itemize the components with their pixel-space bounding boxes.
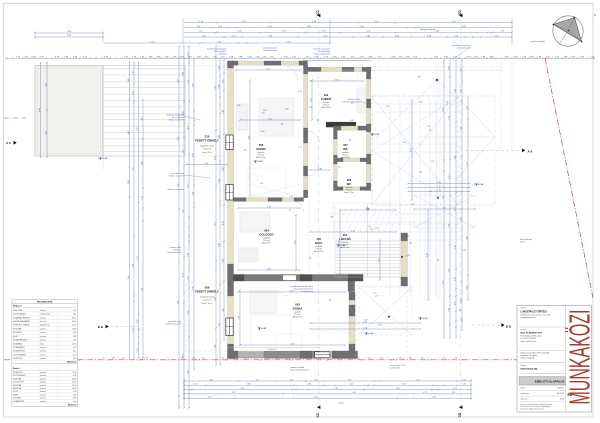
svg-text:1.15: 1.15 [298, 147, 302, 149]
svg-text:1.86: 1.86 [307, 384, 311, 386]
svg-text:HELYISÉGLISTA: HELYISÉGLISTA [37, 301, 53, 304]
svg-text:KÖZL: KÖZL [315, 240, 323, 245]
svg-text:KAVICSŰZA 584.: KAVICSŰZA 584. [521, 367, 539, 370]
svg-text:2.35: 2.35 [442, 281, 444, 285]
svg-text:1111 Budapest, Minta utca 1.: 1111 Budapest, Minta utca 1. [521, 335, 543, 338]
svg-text:Bm=2,70 m: Bm=2,70 m [256, 157, 266, 159]
svg-text:1.30: 1.30 [318, 168, 322, 170]
svg-text:4.30: 4.30 [460, 299, 462, 303]
svg-text:5.44: 5.44 [454, 156, 456, 160]
svg-text:DD: DD [458, 10, 462, 15]
svg-text:+2,85: +2,85 [261, 328, 267, 330]
svg-text:betéttel, m=1,10 m: betéttel, m=1,10 m [169, 175, 184, 178]
svg-text:1.85: 1.85 [310, 98, 312, 102]
svg-text:kerámia: kerámia [40, 353, 46, 356]
svg-text:2.15: 2.15 [373, 293, 377, 295]
svg-text:Emelet: Emelet [13, 367, 20, 370]
svg-text:vakolattal: vakolattal [218, 53, 226, 56]
svg-text:FEDETT ERKÉLY: FEDETT ERKÉLY [195, 138, 219, 143]
svg-text:2.15: 2.15 [132, 328, 134, 332]
svg-text:2.90: 2.90 [320, 358, 323, 360]
svg-text:B B: B B [506, 324, 512, 328]
svg-text:13 KÖZLEKEDŐ: 13 KÖZLEKEDŐ [13, 353, 27, 356]
svg-text:2.15: 2.15 [218, 323, 220, 327]
svg-text:A A: A A [6, 141, 12, 145]
svg-text:1.46: 1.46 [187, 371, 189, 375]
svg-text:4.30: 4.30 [192, 153, 194, 157]
svg-text:hőszig. üvegezéssel: hőszig. üvegezéssel [314, 54, 331, 56]
svg-text:1.46: 1.46 [334, 388, 338, 390]
svg-text:0.90: 0.90 [378, 325, 382, 327]
svg-text:2023.10.: 2023.10. [557, 388, 564, 390]
svg-text:05 SZOBA: 05 SZOBA [13, 384, 22, 387]
svg-text:1.65: 1.65 [128, 276, 130, 280]
svg-text:1.46: 1.46 [141, 288, 143, 292]
svg-text:5.44: 5.44 [466, 237, 468, 241]
svg-text:1.46: 1.46 [214, 297, 216, 301]
svg-text:Földszint: Földszint [13, 305, 22, 308]
svg-text:0.90: 0.90 [375, 228, 379, 230]
svg-text:1.10: 1.10 [429, 191, 433, 193]
svg-text:1.65: 1.65 [132, 71, 134, 75]
svg-text:1.15: 1.15 [308, 358, 311, 360]
svg-text:2.15: 2.15 [285, 358, 288, 360]
svg-text:96,40 m2: 96,40 m2 [68, 404, 77, 407]
svg-text:Bm=2,70 m: Bm=2,70 m [340, 247, 350, 249]
svg-text:2.90: 2.90 [45, 83, 47, 87]
svg-text:1.56: 1.56 [378, 258, 380, 262]
svg-text:tartószerkezeti terv: tartószerkezeti terv [169, 119, 184, 122]
svg-text:2030 Érd, Kavicsos utca 12., h: 2030 Érd, Kavicsos utca 12., hrsz.: 584 [521, 313, 550, 316]
svg-text:LÉPCSŐ: LÉPCSŐ [339, 236, 351, 241]
svg-text:CC: CC [316, 10, 320, 15]
svg-text:14,00 m2: 14,00 m2 [203, 148, 211, 150]
svg-text:+3,42: +3,42 [374, 133, 380, 136]
svg-text:lásd tartószerkezeti terv: lásd tartószerkezeti terv [290, 369, 309, 372]
svg-text:14,00 m2: 14,00 m2 [203, 299, 211, 301]
svg-text:tel: +36 30 123 4567: tel: +36 30 123 4567 [521, 337, 536, 340]
svg-text:2.35: 2.35 [298, 91, 302, 93]
svg-text:03 NAPPALI-ÉTKEZŐ: 03 NAPPALI-ÉTKEZŐ [13, 316, 31, 319]
svg-text:EMELETI ALAPRAJZ: EMELETI ALAPRAJZ [535, 380, 565, 384]
svg-text:5.44: 5.44 [462, 379, 466, 381]
svg-text:09 HÁZTARTÁSI H.: 09 HÁZTARTÁSI H. [13, 339, 29, 342]
svg-text:5.44: 5.44 [402, 384, 406, 386]
svg-text:1.65: 1.65 [187, 253, 189, 257]
svg-text:Bm=2,70 m: Bm=2,70 m [262, 243, 272, 245]
svg-text:2.40: 2.40 [420, 358, 423, 360]
svg-text:06 SZOBA: 06 SZOBA [13, 327, 22, 330]
svg-text:1.65: 1.65 [442, 358, 445, 360]
svg-text:email: iroda@terv.hu: email: iroda@terv.hu [521, 340, 537, 343]
svg-text:1.65: 1.65 [214, 86, 216, 90]
svg-text:DD: DD [458, 412, 462, 417]
svg-text:parketta: parketta [40, 327, 46, 330]
svg-text:2.90: 2.90 [144, 358, 147, 360]
svg-text:1.10: 1.10 [187, 80, 189, 84]
svg-text:+2,96: +2,96 [340, 245, 346, 247]
svg-text:Bm=2,70 m: Bm=2,70 m [321, 107, 331, 109]
svg-text:+2,25: +2,25 [102, 158, 108, 160]
svg-text:2.35: 2.35 [187, 277, 189, 281]
svg-text:4.75: 4.75 [187, 184, 189, 188]
svg-text:07 FÜRDŐ: 07 FÜRDŐ [13, 331, 22, 334]
svg-text:6.30: 6.30 [454, 358, 457, 360]
svg-text:1,85: 1,85 [73, 336, 76, 338]
svg-text:SZOBA: SZOBA [256, 147, 266, 151]
svg-text:1.95: 1.95 [192, 358, 195, 360]
svg-text:1.10: 1.10 [411, 204, 415, 206]
svg-text:3.80: 3.80 [396, 388, 400, 390]
svg-text:2.35: 2.35 [427, 126, 431, 128]
svg-text:2.90: 2.90 [177, 79, 179, 83]
svg-text:5.44: 5.44 [348, 379, 352, 381]
svg-text:1.65: 1.65 [132, 91, 134, 95]
svg-text:5.40: 5.40 [267, 206, 271, 208]
svg-text:1.48: 1.48 [218, 179, 220, 183]
svg-text:fagyálló burk.: fagyálló burk. [40, 324, 51, 327]
svg-text:2.56: 2.56 [294, 241, 296, 245]
svg-text:padlófűtés: padlófűtés [268, 348, 277, 351]
svg-text:kerámia: kerámia [40, 339, 46, 342]
svg-text:4.73: 4.73 [182, 273, 184, 277]
svg-text:02 KÖZLEKEDŐ: 02 KÖZLEKEDŐ [13, 374, 26, 377]
svg-text:2.40: 2.40 [276, 358, 279, 360]
svg-text:2.90: 2.90 [332, 358, 335, 360]
svg-text:lásd statikus terv: lásd statikus terv [264, 49, 277, 52]
svg-text:4.73: 4.73 [416, 379, 420, 381]
svg-text:2.90: 2.90 [192, 287, 194, 291]
svg-text:1.95: 1.95 [448, 269, 450, 273]
svg-text:5.44: 5.44 [182, 72, 184, 76]
svg-text:1.65: 1.65 [209, 379, 213, 381]
svg-text:4.73: 4.73 [454, 302, 456, 306]
svg-text:2,15: 2,15 [447, 101, 449, 105]
svg-text:M=1:100: M=1:100 [557, 393, 564, 395]
svg-text:14,35: 14,35 [72, 328, 76, 330]
svg-text:3.25: 3.25 [351, 230, 355, 232]
svg-text:1.95: 1.95 [137, 127, 139, 131]
svg-text:MUNKAKÖZI: MUNKAKÖZI [565, 310, 597, 405]
svg-text:2.40: 2.40 [222, 309, 224, 313]
svg-text:3,25: 3,25 [73, 347, 76, 349]
svg-text:1.48: 1.48 [460, 127, 462, 131]
svg-text:4.75: 4.75 [256, 379, 260, 381]
svg-text:1.65: 1.65 [187, 311, 189, 315]
svg-text:1.65: 1.65 [182, 210, 184, 214]
svg-text:6,20: 6,20 [73, 332, 76, 334]
svg-text:2.35: 2.35 [375, 296, 379, 298]
svg-text:1.95: 1.95 [314, 379, 318, 381]
svg-text:Bm=2,70 m: Bm=2,70 m [202, 152, 212, 154]
svg-text:1.48: 1.48 [177, 301, 179, 305]
svg-text:01 LÉPCSŐ: 01 LÉPCSŐ [13, 371, 23, 374]
svg-text:2.40: 2.40 [128, 131, 130, 135]
svg-text:1.48: 1.48 [132, 264, 134, 268]
svg-text:2.15: 2.15 [187, 53, 189, 57]
svg-text:kerámia: kerámia [40, 320, 46, 323]
svg-text:1.65: 1.65 [222, 80, 224, 84]
svg-text:beton: beton [40, 342, 44, 345]
svg-text:1.46: 1.46 [350, 384, 354, 386]
svg-text:1.46: 1.46 [460, 89, 462, 93]
svg-text:2.35: 2.35 [466, 162, 468, 166]
svg-text:2.90: 2.90 [137, 320, 139, 324]
svg-text:3.80: 3.80 [128, 180, 130, 184]
svg-text:méretarány:: méretarány: [521, 392, 531, 395]
svg-text:5.40: 5.40 [266, 68, 270, 70]
svg-text:É-04: É-04 [560, 398, 564, 401]
svg-text:12 SZÉLFOGÓ: 12 SZÉLFOGÓ [13, 350, 26, 353]
svg-text:4.20: 4.20 [410, 148, 412, 152]
svg-text:kerámia: kerámia [40, 309, 46, 312]
svg-text:4.30: 4.30 [314, 397, 318, 399]
svg-text:0.90: 0.90 [351, 103, 355, 105]
svg-text:1.95: 1.95 [132, 167, 134, 171]
svg-text:DOLGOZÓ: DOLGOZÓ [259, 232, 274, 237]
svg-text:4.30: 4.30 [208, 397, 212, 399]
svg-text:14.40: 14.40 [338, 403, 344, 405]
svg-text:1.10: 1.10 [261, 112, 265, 114]
svg-text:3.25: 3.25 [437, 190, 441, 192]
svg-text:2.90: 2.90 [454, 277, 456, 281]
svg-text:kerámia: kerámia [40, 335, 46, 338]
svg-text:munkatárs: Kiss Anna: munkatárs: Kiss Anna [521, 354, 537, 357]
svg-text:4.10: 4.10 [268, 118, 272, 120]
svg-text:3.80: 3.80 [222, 168, 224, 172]
svg-text:4,90: 4,90 [73, 340, 76, 342]
svg-text:helyszín:: helyszín: [521, 365, 528, 367]
svg-text:+2,30: +2,30 [368, 333, 374, 335]
svg-text:3.80: 3.80 [218, 243, 220, 247]
svg-text:4.73: 4.73 [453, 388, 457, 390]
svg-text:3.95: 3.95 [205, 163, 209, 165]
svg-text:MOL PLANNING KFT.: MOL PLANNING KFT. [521, 332, 543, 335]
svg-text:10 GARDRÓB: 10 GARDRÓB [13, 400, 25, 403]
svg-text:03 SZOBA: 03 SZOBA [13, 377, 22, 380]
svg-text:0.90: 0.90 [403, 142, 407, 144]
svg-text:2.15: 2.15 [452, 392, 456, 394]
svg-text:2.20: 2.20 [366, 208, 370, 210]
svg-text:3.80: 3.80 [409, 358, 412, 360]
svg-text:6.30: 6.30 [214, 156, 216, 160]
svg-text:2.35: 2.35 [370, 229, 374, 231]
svg-text:18,47: 18,47 [72, 321, 76, 323]
svg-text:146,32 m2: 146,32 m2 [67, 361, 77, 364]
svg-text:betéttel, m=1,10 m: betéttel, m=1,10 m [166, 323, 181, 326]
svg-text:4,25: 4,25 [73, 358, 76, 360]
svg-text:2.90: 2.90 [121, 358, 124, 360]
svg-text:2.15: 2.15 [443, 207, 447, 209]
svg-text:2.90: 2.90 [335, 79, 339, 81]
svg-text:5,32: 5,32 [73, 310, 76, 312]
svg-text:3.40: 3.40 [426, 253, 428, 257]
svg-text:4.73: 4.73 [423, 392, 427, 394]
svg-text:1.15: 1.15 [141, 196, 143, 200]
svg-text:lásd statikus terv: lásd statikus terv [168, 251, 181, 254]
svg-text:2.90: 2.90 [432, 397, 436, 399]
svg-text:5.44: 5.44 [218, 85, 220, 89]
svg-text:A A: A A [528, 150, 534, 154]
svg-text:04 DOLGOZÓ: 04 DOLGOZÓ [13, 381, 24, 384]
svg-text:Bm=2,70 m: Bm=2,70 m [293, 317, 303, 319]
svg-text:4.30: 4.30 [222, 221, 224, 225]
svg-text:Bm=2,70 m: Bm=2,70 m [341, 157, 351, 159]
svg-text:1.15: 1.15 [137, 349, 139, 353]
svg-text:1.10: 1.10 [437, 186, 441, 188]
svg-text:5.44: 5.44 [290, 379, 294, 381]
svg-text:FÜRDŐ: FÜRDŐ [321, 96, 332, 101]
svg-text:1.48: 1.48 [330, 217, 334, 219]
svg-text:1.15: 1.15 [265, 358, 268, 360]
svg-text:4.95: 4.95 [248, 136, 250, 140]
svg-text:10 GARÁZS: 10 GARÁZS [13, 342, 23, 345]
svg-text:1.48: 1.48 [364, 319, 368, 321]
svg-text:CC: CC [316, 412, 320, 417]
svg-text:0.90: 0.90 [418, 102, 422, 104]
svg-text:felelős tervező: Minta Péter É: felelős tervező: Minta Péter É 01-2345 [521, 351, 550, 354]
svg-text:1.48: 1.48 [350, 120, 354, 122]
svg-text:Bm=2,70 m: Bm=2,70 m [314, 251, 324, 253]
svg-text:2.56: 2.56 [338, 241, 340, 245]
svg-text:3,90: 3,90 [73, 354, 76, 356]
svg-text:2.15: 2.15 [101, 358, 104, 360]
svg-text:2.15: 2.15 [193, 384, 197, 386]
svg-text:2.35: 2.35 [285, 109, 289, 111]
svg-text:dátum:: dátum: [521, 387, 527, 390]
svg-text:1.48: 1.48 [192, 192, 194, 196]
svg-text:4.30: 4.30 [290, 290, 294, 292]
svg-text:1.10: 1.10 [290, 196, 294, 198]
svg-text:a lefolyó felé: a lefolyó felé [390, 368, 400, 370]
svg-text:0.90: 0.90 [237, 105, 241, 107]
svg-text:1.15: 1.15 [367, 226, 371, 228]
svg-text:SZOBA: SZOBA [293, 307, 303, 311]
svg-text:06 SZOBA: 06 SZOBA [13, 387, 22, 390]
svg-text:4.73: 4.73 [187, 126, 189, 130]
svg-text:meglévő telekhatár: meglévő telekhatár [530, 40, 546, 43]
svg-text:B B: B B [98, 325, 104, 329]
svg-text:lásd még: részletterv: lásd még: részletterv [167, 188, 184, 191]
svg-text:1.95: 1.95 [454, 245, 456, 249]
svg-text:21,10: 21,10 [72, 325, 76, 327]
svg-text:fagyálló burkolat: fagyálló burkolat [200, 144, 214, 147]
svg-text:1.46: 1.46 [218, 66, 220, 70]
svg-text:0.90: 0.90 [261, 131, 265, 133]
svg-text:1.48: 1.48 [214, 345, 216, 349]
svg-text:Bm=2,70 m: Bm=2,70 m [344, 192, 354, 194]
svg-text:2.90: 2.90 [177, 184, 179, 188]
svg-text:1.46: 1.46 [141, 118, 143, 122]
svg-text:WC: WC [347, 182, 352, 186]
svg-text:02 KÖZLEKEDŐ: 02 KÖZLEKEDŐ [13, 313, 27, 316]
svg-text:32,60: 32,60 [72, 317, 76, 319]
svg-text:1.10: 1.10 [448, 176, 450, 180]
svg-text:Bm=2,70 m: Bm=2,70 m [202, 303, 212, 305]
svg-text:1.86: 1.86 [247, 384, 251, 386]
svg-text:fagyálló burkolat: fagyálló burkolat [200, 295, 214, 298]
svg-text:statikus: Nagy Béla: statikus: Nagy Béla [521, 357, 536, 360]
svg-text:FEDETT ERKÉLY: FEDETT ERKÉLY [195, 289, 219, 294]
svg-text:1.86: 1.86 [177, 137, 179, 141]
svg-text:2.40: 2.40 [192, 84, 194, 88]
svg-text:0a FÜRDŐ: 0a FÜRDŐ [13, 397, 22, 400]
svg-text:2.35: 2.35 [309, 107, 313, 109]
svg-text:1.10: 1.10 [448, 116, 450, 120]
svg-text:2.35: 2.35 [238, 316, 240, 320]
svg-text:01 ELŐTÉR: 01 ELŐTÉR [13, 309, 23, 312]
svg-text:04 KONYHA-KAMRA: 04 KONYHA-KAMRA [13, 320, 30, 323]
svg-text:+3,42: +3,42 [478, 183, 484, 186]
svg-text:1.48: 1.48 [222, 259, 224, 263]
svg-text:2.15: 2.15 [385, 106, 389, 108]
svg-text:4.75: 4.75 [214, 222, 216, 226]
svg-text:4,12: 4,12 [73, 351, 76, 353]
svg-text:engedélyezési terve: engedélyezési terve [521, 316, 536, 319]
svg-text:1.15: 1.15 [259, 183, 263, 185]
svg-text:2.35: 2.35 [363, 321, 367, 323]
svg-text:3.20: 3.20 [45, 131, 47, 135]
svg-text:35 fok: 35 fok [520, 242, 525, 244]
svg-text:hidegburkolat: hidegburkolat [40, 313, 51, 316]
svg-text:+3,42: +3,42 [257, 160, 263, 163]
svg-text:parketta: parketta [40, 316, 46, 319]
svg-text:kerámia: kerámia [40, 346, 46, 349]
svg-text:kerámia: kerámia [40, 350, 46, 353]
svg-text:2.15: 2.15 [137, 256, 139, 260]
svg-text:hőszigeteléssel: hőszigeteléssel [301, 290, 314, 293]
svg-text:1.95: 1.95 [454, 89, 456, 93]
svg-text:WC: WC [343, 147, 348, 151]
svg-text:1.15: 1.15 [431, 161, 435, 163]
svg-text:4.75: 4.75 [182, 354, 184, 358]
svg-text:1.48: 1.48 [128, 79, 130, 83]
svg-text:4.30: 4.30 [291, 343, 295, 345]
svg-text:2.15: 2.15 [409, 242, 413, 244]
svg-text:parketta: parketta [40, 357, 46, 360]
svg-text:5.44: 5.44 [222, 110, 224, 114]
svg-text:1.65: 1.65 [448, 308, 450, 312]
svg-text:bádogozott attikafal: bádogozott attikafal [420, 28, 436, 31]
svg-text:1.65: 1.65 [448, 224, 450, 228]
svg-text:1.10: 1.10 [202, 358, 205, 360]
svg-text:2.40: 2.40 [448, 67, 450, 71]
svg-text:1.15: 1.15 [182, 150, 184, 154]
svg-text:2.35: 2.35 [221, 358, 224, 360]
svg-text:0.90: 0.90 [406, 236, 410, 238]
svg-text:08 WC: 08 WC [13, 336, 19, 338]
svg-text:1.65: 1.65 [442, 108, 444, 112]
svg-text:21,30: 21,30 [72, 343, 76, 345]
svg-text:2.35: 2.35 [466, 286, 468, 290]
svg-text:+2,30: +2,30 [422, 318, 428, 320]
svg-text:1.15: 1.15 [338, 167, 342, 169]
svg-text:2.35: 2.35 [419, 172, 423, 174]
svg-text:4.75: 4.75 [232, 392, 236, 394]
svg-text:05 FEDETT TERASZ: 05 FEDETT TERASZ [13, 324, 30, 327]
svg-text:LAKÓÉPÜLET ÉPÍTÉSI: LAKÓÉPÜLET ÉPÍTÉSI [521, 310, 547, 313]
svg-text:1.86: 1.86 [240, 388, 244, 390]
svg-text:4.15: 4.15 [363, 327, 367, 329]
svg-text:5.44: 5.44 [141, 162, 143, 166]
svg-text:kerámia: kerámia [40, 331, 46, 334]
svg-text:3.80: 3.80 [462, 384, 466, 386]
svg-text:9,41: 9,41 [73, 314, 76, 316]
svg-text:14 LÉPCSŐ: 14 LÉPCSŐ [13, 357, 23, 360]
svg-text:4.75: 4.75 [243, 358, 246, 360]
svg-text:4.95: 4.95 [267, 268, 271, 270]
svg-text:1.46: 1.46 [352, 392, 356, 394]
